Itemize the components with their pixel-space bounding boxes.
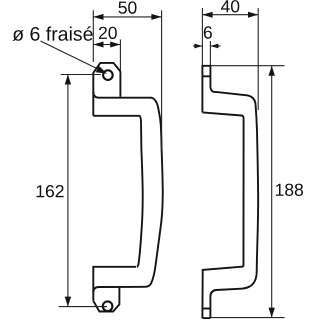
inner grip arc edge [137,122,143,267]
plate bottom cap [202,317,210,319]
ext line right of 40 dim [257,8,259,110]
grip inner line (side) [242,118,244,266]
bottom countersunk hole [103,301,113,311]
inner profile bottom bend [210,286,250,318]
ext line bottom of 162 dim [59,306,107,308]
dimension lines (thin) [41,8,285,318]
centre tick inside bottom hole [102,306,107,308]
inner top shoulder edge [93,116,141,122]
ext line left of 50/20 dims [92,10,94,62]
arrow leader callout [96,66,107,74]
label 188 [276,184,303,196]
arrow 6 right (outside) [210,44,218,49]
ext line bottom of 188 dim [210,317,284,319]
bottom tab plate [93,287,119,311]
arrow 188 top [269,66,275,76]
bottom outer shoulder edge [93,287,144,293]
ext line top of 162 dim [61,74,101,76]
arrow 162 bottom [65,297,71,307]
arrow 20 left [93,42,103,48]
ext line right of 6 dim [209,41,211,66]
label 20 [99,27,117,39]
ext line left of 40/6 dims [201,8,203,66]
ext line right of 50 dim [161,10,163,150]
inner bottom shoulder edge [93,267,136,301]
label 40 [221,0,239,12]
arrowheads (solid) [65,12,275,318]
arrow 40 right [248,12,258,18]
arrow 50 right [151,14,161,20]
top tab plate [93,63,120,116]
label 162 [37,185,64,197]
dim line 40 [202,14,258,16]
front view outline (handle body) [93,63,162,312]
arrow 40 left [202,12,212,18]
inner profile top bend [210,86,255,106]
arrow 6 left (outside) [194,44,202,49]
side view outline (handle profile) [202,66,258,318]
dim line 6 right stub [210,45,220,47]
outer grip arc right edge [145,98,163,287]
outer profile top bend [202,112,243,118]
ext line top of 188 dim [210,65,284,67]
leader line of hole callout [41,41,102,71]
grip outer arc (side) [251,106,259,287]
dim line 20 [93,44,120,46]
top countersunk hole [103,70,113,80]
arrow 50 left [93,14,103,20]
outer profile bottom bend [202,267,243,319]
arrow 20 right [110,42,120,48]
label o6fraise [13,26,93,41]
dim line 50 [93,16,161,18]
arrow 162 top [65,75,71,85]
dim line 162 [67,75,69,307]
plate top section [202,66,210,113]
top outer shoulder edge [93,92,151,98]
ext line right of 20 dim [119,40,121,72]
label 50 [119,1,137,13]
dim line 188 [271,66,273,318]
hole centre tick top [202,75,210,77]
label 6 [204,26,212,38]
hole centre tick bottom [202,308,210,310]
dim line 6 left stub [193,45,202,47]
arrow 188 bottom [269,308,275,318]
